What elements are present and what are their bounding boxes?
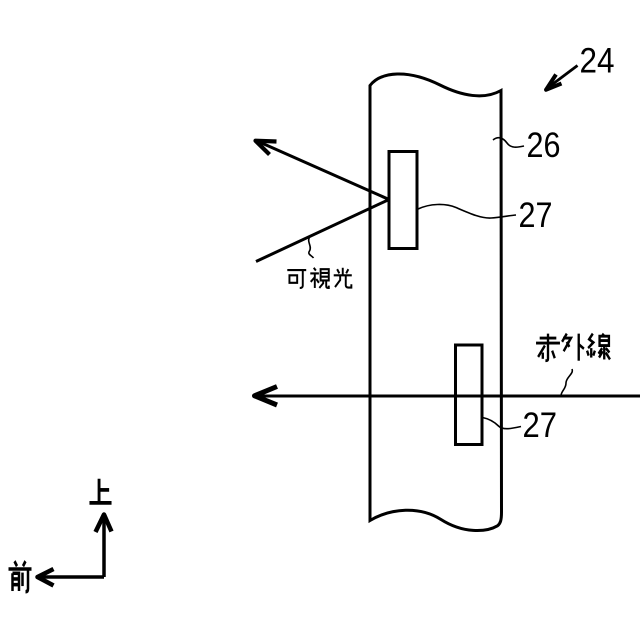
label 赤外線 (infrared), hand-drawn kanji: [536, 334, 610, 361]
wavy leader to 可視光: [309, 237, 314, 259]
wavy leader to lower 27: [483, 418, 522, 429]
arrowhead left: [38, 569, 54, 586]
arrowhead of reflected ray: [256, 141, 277, 155]
filter element 27 (lower rectangle): [456, 345, 483, 445]
arrowhead of infrared ray: [255, 387, 278, 406]
線: [587, 334, 610, 360]
wavy leader to 赤外線: [561, 369, 572, 396]
label 可視光 (visible light), hand-drawn kanji: [287, 268, 351, 288]
visible light incoming ray: [256, 200, 389, 262]
光: [334, 268, 352, 288]
可: [287, 270, 306, 288]
visible light reflected ray: [256, 141, 389, 200]
axis: up arrow: [102, 514, 106, 577]
arrow to panel for 24: [546, 66, 578, 90]
wavy leader to 26: [493, 138, 524, 147]
arrowhead up: [96, 515, 112, 533]
arrowhead of 24 arrow: [546, 75, 562, 90]
filter element 27 (upper rectangle): [389, 152, 417, 249]
視: [310, 268, 328, 288]
svg-text:27: 27: [523, 406, 558, 445]
wavy leader to upper 27: [418, 204, 516, 218]
label 上 (up), hand-drawn kanji: [89, 479, 111, 503]
panel 26 (vertical sheet with wavy break edges): [370, 74, 502, 531]
axis: forward (left) arrow: [37, 575, 104, 579]
svg-text:24: 24: [580, 41, 615, 80]
外: [562, 334, 584, 361]
infrared ray (horizontal arrow): [254, 395, 640, 398]
label 前 (front), hand-drawn kanji: [9, 561, 32, 592]
svg-text:27: 27: [519, 196, 553, 235]
赤: [536, 334, 560, 361]
svg-text:26: 26: [527, 126, 561, 165]
